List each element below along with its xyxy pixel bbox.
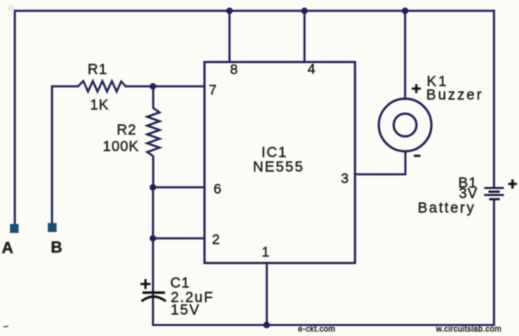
node top rail pin4 <box>301 8 308 15</box>
svg-text:100K: 100K <box>103 139 139 155</box>
buzzer minus sign <box>414 155 421 157</box>
wire terminal B up to R1 <box>52 86 78 223</box>
svg-text:e-ckt.com: e-ckt.com <box>298 325 335 334</box>
svg-text:Buzzer: Buzzer <box>426 87 483 103</box>
buzzer plus sign <box>412 84 421 93</box>
svg-text:15V: 15V <box>171 302 200 318</box>
svg-text:1K: 1K <box>90 98 109 114</box>
svg-text:NE555: NE555 <box>253 160 304 176</box>
resistor R2 <box>147 86 159 187</box>
node top rail pin8 <box>226 8 233 15</box>
node junction R1/R2 pin7 <box>150 83 157 90</box>
terminal A pad <box>10 224 19 233</box>
svg-text:R1: R1 <box>88 62 108 78</box>
battery B1 plate long top <box>484 187 504 189</box>
node junction R2/pin6 <box>150 184 157 191</box>
battery B1 plate short 2 <box>489 198 500 200</box>
svg-text:1: 1 <box>262 244 270 260</box>
op-amp IC1 NE555 body <box>205 62 356 263</box>
svg-text:8: 8 <box>230 61 238 77</box>
wire R1 to pin 7 <box>126 85 205 87</box>
wire right side to battery <box>493 11 495 187</box>
buzzer K1 inner circle <box>394 114 417 137</box>
battery plus sign <box>508 179 517 188</box>
svg-text:Battery: Battery <box>418 200 476 216</box>
wire pin 2 <box>153 237 205 239</box>
svg-text:~: ~ <box>2 321 9 332</box>
node junction pin2/C1 <box>150 235 157 242</box>
wire pin 1 to bottom rail <box>266 263 268 325</box>
wire pin 4 from top rail <box>303 11 305 62</box>
wire pin 8 from top rail <box>228 11 230 62</box>
wire top rail to buzzer <box>404 11 406 99</box>
svg-text:3: 3 <box>341 170 349 186</box>
svg-text:6: 6 <box>214 181 222 197</box>
capacitor C1 plus sign <box>141 279 151 289</box>
wire R2 node down to pin 2 node <box>152 187 154 238</box>
svg-text:w.circuitslab.com: w.circuitslab.com <box>435 325 502 334</box>
svg-text:B: B <box>51 239 63 256</box>
watermark speck top left <box>7 5 13 11</box>
wire battery to bottom rail <box>153 200 494 325</box>
node top rail buzzer <box>402 8 409 15</box>
terminal B pad <box>48 223 57 232</box>
svg-text:2: 2 <box>212 231 220 247</box>
wire pin2 node through C1 to bottom rail <box>152 238 154 325</box>
node bottom rail pin1 <box>263 322 270 329</box>
svg-text:7: 7 <box>209 82 217 98</box>
capacitor C1 flat plate <box>143 291 166 294</box>
buzzer K1 outer circle <box>379 99 432 152</box>
capacitor C1 curved plate <box>142 297 166 302</box>
svg-text:4: 4 <box>308 61 316 77</box>
resistor R1 <box>78 81 126 92</box>
wire pin 6 <box>153 186 205 188</box>
svg-text:R2: R2 <box>117 123 137 139</box>
wire top rail V+ <box>15 11 494 224</box>
svg-text:A: A <box>2 240 14 257</box>
battery B1 plate short 1 <box>488 191 499 193</box>
wire pin 3 to buzzer <box>355 151 405 174</box>
battery B1 plate long 2 <box>484 194 504 196</box>
